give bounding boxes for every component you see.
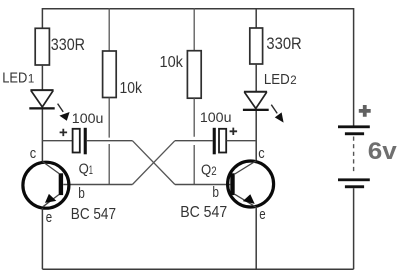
wire Q2 emitter to bottom rail: [255, 207, 257, 269]
wire top rail: [42, 8, 353, 10]
resistor 330R right (box): [250, 28, 263, 64]
wire cap2 node horizontal to cap2 left plate: [175, 140, 213, 142]
resistor 10k no2 (box): [187, 51, 201, 98]
svg-text:330R: 330R: [266, 34, 301, 53]
Q2 circle: [228, 161, 274, 207]
wire cap2 right to Q2 collector column: [227, 140, 257, 142]
battery bottom cell short plate: [345, 185, 364, 188]
transistor Q2: [180, 145, 273, 223]
cap1 positive plate (hollow): [73, 129, 80, 153]
Q2 emitter diagonal: [235, 194, 256, 207]
svg-text:b: b: [212, 184, 219, 201]
LED2 (diode symbol): [243, 92, 269, 111]
wire left column top (rail to R1): [41, 8, 43, 28]
wire R1 bottom to Q1 base line (crosses cap wire): [108, 98, 110, 185]
battery dashed link: [353, 137, 355, 175]
svg-text:b: b: [78, 185, 85, 202]
svg-text:c: c: [30, 145, 37, 162]
wire R1 column top (rail to 10k): [108, 8, 110, 51]
svg-text:BC 547: BC 547: [180, 204, 227, 221]
LED1 (diode symbol): [29, 90, 54, 109]
svg-text:BC 547: BC 547: [71, 206, 116, 223]
wire bottom rail: [42, 268, 353, 270]
wire Q1 emitter to bottom rail: [41, 208, 43, 269]
battery top cell short plate: [345, 132, 364, 135]
plus sign cap1: [60, 129, 68, 136]
wire rail corner to battery top: [353, 8, 355, 126]
wire 330R to LED1: [41, 65, 43, 90]
Q2 collector diagonal: [235, 161, 256, 174]
Q2 emitter arrow: [243, 194, 255, 204]
wire cap1 node: Q1 collector to cap1 left plate: [42, 140, 72, 142]
plus sign cap2: [230, 128, 238, 135]
wire R2 column top (rail to 10k): [193, 8, 195, 51]
wire Q2 base horizontal: [175, 184, 230, 186]
LED2 light arrow: [271, 105, 283, 123]
transistor Q1: [23, 145, 116, 226]
Q2 base bar: [230, 173, 234, 195]
svg-text:10k: 10k: [160, 54, 184, 71]
wire right LED column top (rail to 330R): [255, 8, 257, 28]
battery bottom cell long plate: [338, 178, 370, 181]
wire R2 bottom to Q2 base line (crosses cap wire): [193, 98, 195, 184]
plus sign battery: [359, 105, 371, 117]
svg-text:100u: 100u: [72, 110, 104, 126]
Q1 collector diagonal: [42, 162, 59, 174]
Q1 emitter arrow: [45, 194, 56, 203]
wire Q1 base horizontal: [63, 184, 132, 186]
wire LED2 to Q2 collector: [255, 111, 257, 161]
battery B1 6v: [338, 8, 397, 269]
Q1 emitter diagonal: [43, 195, 59, 207]
svg-text:6v: 6v: [368, 138, 398, 165]
svg-text:100u: 100u: [200, 109, 232, 125]
wire 330R right to LED2: [255, 64, 257, 92]
Q1 circle: [23, 162, 69, 208]
cap1 negative plate (bar): [84, 128, 87, 155]
wire diagonal B (Q1 base up to cap2 node): [132, 141, 175, 185]
LED1 light arrow: [58, 104, 70, 121]
wire cap1 right to X network: [87, 140, 133, 142]
svg-text:c: c: [258, 145, 265, 162]
resistor 330R left (box): [35, 28, 49, 65]
capacitor C2 100u: [200, 109, 237, 154]
wire diagonal A (cap1 node down to Q2 base): [132, 141, 175, 185]
Q1 base bar: [59, 173, 63, 195]
svg-text:e: e: [46, 209, 52, 226]
wire LED1 to Q1 collector: [41, 109, 43, 161]
resistor 10k no1 (box): [103, 51, 117, 98]
svg-text:330R: 330R: [51, 35, 85, 54]
capacitor C1 100u: [60, 110, 104, 155]
svg-text:e: e: [259, 206, 265, 223]
cap2 negative plate (bar): [213, 128, 216, 155]
cap2 positive plate (hollow): [219, 129, 226, 153]
svg-text:10k: 10k: [120, 80, 143, 97]
wire battery bottom to rail: [353, 188, 355, 269]
battery top cell long plate: [338, 125, 370, 128]
